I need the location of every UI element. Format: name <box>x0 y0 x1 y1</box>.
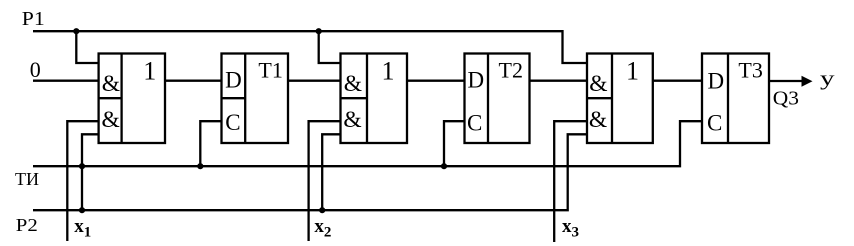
junction dot TI-T2C <box>441 163 447 169</box>
wire U2 out to T2 D <box>407 80 465 82</box>
svg-text:C: C <box>225 110 240 135</box>
svg-text:&: & <box>589 107 607 133</box>
junction dot P2-U1 <box>79 207 85 213</box>
svg-text:1: 1 <box>626 56 639 85</box>
and-or gate U3 <box>587 54 653 144</box>
svg-text:&: & <box>589 71 607 97</box>
svg-text:P2: P2 <box>16 215 38 235</box>
svg-text:0: 0 <box>30 57 41 82</box>
wire T2 Q to U3 <box>530 80 588 82</box>
svg-text:1: 1 <box>382 56 395 85</box>
wire P1 branch to U2 <box>319 31 341 63</box>
flip-flop T1 <box>222 54 289 144</box>
wire 0 input to U1 <box>33 80 99 82</box>
wire T1 Q to U2 <box>288 80 341 82</box>
wire P2 tap to U2 <box>322 134 340 210</box>
svg-text:T2: T2 <box>499 58 523 83</box>
svg-text:&: & <box>343 107 361 133</box>
svg-text:D: D <box>225 67 242 92</box>
svg-text:D: D <box>468 68 485 93</box>
junction dot P1-U2 <box>316 28 322 34</box>
flip-flop T2 <box>465 54 530 144</box>
svg-text:T1: T1 <box>258 58 282 83</box>
wire TI tap to T1 C <box>200 121 221 166</box>
arrowhead output y <box>802 76 813 87</box>
svg-text:&: & <box>102 107 120 133</box>
svg-text:C: C <box>707 110 722 135</box>
junction dot P1-U1 <box>73 28 79 34</box>
svg-text:у: у <box>820 66 835 90</box>
and-or gate U1 <box>99 54 165 144</box>
wire x1 input to U1 <box>67 121 98 241</box>
wire P2 bus with branch to U3 <box>33 134 587 210</box>
svg-text:&: & <box>344 71 362 97</box>
wire T3 Q output <box>769 80 803 82</box>
wire P1 branch to U1 <box>76 31 98 63</box>
svg-text:&: & <box>102 71 120 97</box>
svg-text:P1: P1 <box>22 8 45 30</box>
wire P1 bus with branch to U3 <box>33 31 587 63</box>
wire x3 input to U3 <box>554 121 587 242</box>
svg-text:C: C <box>467 110 482 135</box>
junction dot TI-x1 <box>79 163 85 169</box>
wire U3 out to T3 D <box>653 80 702 82</box>
svg-text:T3: T3 <box>738 58 762 83</box>
wire U1 out to T1 D <box>165 80 222 82</box>
svg-text:ТИ: ТИ <box>15 169 39 189</box>
svg-text:D: D <box>708 69 725 94</box>
wire TI clock bus with branch to T3 C <box>33 121 702 166</box>
wire x2 input to U2 <box>309 121 341 241</box>
svg-text:1: 1 <box>143 56 156 85</box>
and-or gate U2 <box>341 54 408 144</box>
flip-flop T3 <box>702 54 769 144</box>
svg-text:Q3: Q3 <box>773 88 799 110</box>
wire P2 tap to U1 <box>82 134 99 210</box>
wire TI tap to T2 C <box>444 121 465 166</box>
junction dot TI-T1C <box>197 163 203 169</box>
junction dot P2-U2 <box>319 207 325 213</box>
